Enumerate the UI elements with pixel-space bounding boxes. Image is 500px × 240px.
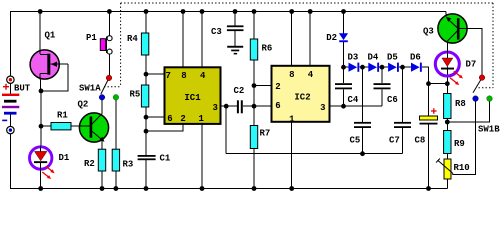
wire: D4/D5 junction down to C6 bbox=[381, 67, 383, 83]
wire: +V top rail bbox=[10, 11, 446, 13]
wire: pin3 node down bbox=[225, 106, 227, 154]
wire: R1 to Q2 base bbox=[71, 125, 79, 127]
wire: P1 to SW1A common bbox=[108, 54, 110, 75]
wire: junction down to pin2 node bbox=[145, 117, 147, 131]
wire: pin2 node down to pin6 node bbox=[253, 86, 255, 107]
junction +V rail / P1 bbox=[107, 9, 112, 14]
transistor Q2 bbox=[79, 113, 108, 149]
diode D5 bbox=[388, 63, 399, 72]
wire: node to IC2 pin 6 bbox=[254, 105, 272, 107]
wire: IC2 pin 1 to bottom rail bbox=[291, 122, 293, 189]
mechanical link dotted line right drop to SW1B bbox=[492, 3, 494, 88]
wire: Q1 gate loop to source junction bbox=[41, 64, 68, 91]
svg-text:4: 4 bbox=[308, 70, 314, 80]
junction D1/bottom rail bbox=[38, 186, 43, 191]
svg-text:C2: C2 bbox=[234, 86, 245, 96]
junction R1/D1 node bbox=[39, 124, 44, 129]
junction IC2 pin1/bottom rail bbox=[289, 186, 294, 191]
junction +V rail / IC1 pin 8 bbox=[181, 9, 186, 14]
wire: junction to R5 bbox=[145, 74, 147, 85]
svg-text:R4: R4 bbox=[127, 34, 138, 44]
junction IC1 pin1/bottom rail bbox=[200, 186, 205, 191]
junction +V rail / D2 bbox=[341, 9, 346, 14]
svg-text:2: 2 bbox=[180, 114, 185, 124]
wire: node down to C1 bbox=[145, 131, 147, 155]
wire: D3/D4 junction down to C5 bbox=[362, 67, 364, 122]
junction R3/bottom rail bbox=[114, 186, 119, 191]
wire: phase line to C5 bbox=[226, 153, 362, 155]
wire: C3 to ground symbol bbox=[234, 31, 236, 46]
mechanical link dotted line top bbox=[121, 2, 493, 4]
wire: phase line to C7 bbox=[363, 153, 403, 155]
wire: ground bottom rail bbox=[10, 188, 448, 190]
wire: C6 bottom lead bbox=[381, 89, 383, 106]
wire: D1 cathode to bottom rail bbox=[40, 171, 42, 189]
svg-text:D5: D5 bbox=[387, 53, 398, 63]
resistor R7 bbox=[250, 126, 257, 149]
capacitor C7 bbox=[394, 122, 411, 128]
svg-text:Q2: Q2 bbox=[78, 100, 89, 110]
wire: node down to C8 bbox=[428, 84, 430, 116]
wire: D4 to D5 bbox=[379, 66, 388, 68]
wire: node to R1 bbox=[41, 125, 51, 127]
battery BUT bbox=[2, 76, 19, 134]
wire: R10 to bottom rail corner bbox=[447, 179, 449, 189]
op-amp/timer IC1 bbox=[165, 67, 221, 124]
wire: SW1A blue contact to Q2 collector bbox=[101, 100, 103, 114]
junction C4/pump line bbox=[341, 104, 346, 109]
wire: R3 to bottom rail bbox=[115, 171, 117, 189]
LED D7 bbox=[435, 52, 463, 86]
svg-text:D7: D7 bbox=[466, 60, 477, 70]
junction D3/D4/C5 bbox=[360, 65, 365, 70]
capacitor C3 bbox=[227, 25, 244, 31]
wire: SW1A green contact to R3 bbox=[115, 100, 117, 149]
junction R4/R5/pin7 bbox=[144, 72, 149, 77]
svg-text:SW1A: SW1A bbox=[79, 84, 101, 94]
wire: battery minus to bottom rail bbox=[10, 134, 12, 189]
svg-text:IC1: IC1 bbox=[184, 93, 201, 103]
wire: SW1B green contact to R8/R9 junction bbox=[447, 101, 489, 122]
svg-text:C7: C7 bbox=[389, 136, 400, 146]
wire: pin3 node to C2 bbox=[226, 105, 237, 107]
wire: node to D7/R8 node bbox=[429, 83, 448, 85]
wire: rail down to P1 bbox=[108, 12, 110, 36]
wire: R7 to bottom rail bbox=[253, 149, 255, 189]
svg-text:Q1: Q1 bbox=[45, 31, 56, 41]
resistor R4 bbox=[141, 33, 148, 55]
wire: R4 to junction pin7 bbox=[145, 55, 147, 74]
wire: D7 anode to Q3 collector bbox=[446, 41, 448, 51]
wire: R8 to junction bbox=[446, 119, 448, 123]
resistor R6 bbox=[250, 39, 257, 60]
wire: node to IC1 pin 2 (bent) bbox=[146, 124, 183, 131]
LED D1 bbox=[30, 146, 55, 179]
wire: R9 to R10 bbox=[446, 154, 448, 160]
wire: D3 to D4 bbox=[359, 66, 368, 68]
svg-text:R3: R3 bbox=[123, 160, 134, 170]
junction C5/phase line bbox=[360, 151, 365, 156]
diode D2 bbox=[339, 33, 348, 42]
resistor R3 bbox=[112, 149, 119, 171]
trimmer R10 bbox=[436, 159, 453, 180]
svg-text:IC2: IC2 bbox=[294, 93, 310, 103]
wire: D5 to D6 bbox=[399, 66, 411, 68]
capacitor C2 bbox=[237, 100, 243, 113]
svg-text:C6: C6 bbox=[387, 95, 398, 105]
svg-text:D1: D1 bbox=[59, 153, 70, 163]
resistor R2 bbox=[98, 149, 105, 171]
wire: junction to IC1 pin 7 bbox=[146, 73, 165, 75]
svg-text:R9: R9 bbox=[454, 139, 465, 149]
resistor R8 bbox=[444, 94, 451, 119]
junction +V rail / Q1 bbox=[38, 9, 43, 14]
switch SW1A bbox=[99, 75, 120, 100]
wire: IC1 pin 4 to rail bbox=[201, 12, 203, 68]
svg-text:D6: D6 bbox=[410, 53, 421, 63]
svg-text:R8: R8 bbox=[455, 99, 466, 109]
svg-text:D3: D3 bbox=[348, 53, 359, 63]
svg-text:C8: C8 bbox=[415, 136, 426, 146]
wire: junction to IC1 pin 6 bbox=[146, 116, 165, 118]
svg-text:3: 3 bbox=[212, 103, 217, 113]
transistor Q3 bbox=[438, 12, 468, 44]
resistor R1 bbox=[51, 123, 71, 130]
junction +V rail / IC1 pin 4 bbox=[200, 9, 205, 14]
pushbutton P1 bbox=[100, 36, 112, 54]
capacitor C1 bbox=[138, 155, 156, 160]
svg-text:C5: C5 bbox=[350, 136, 361, 146]
svg-text:C3: C3 bbox=[211, 27, 222, 37]
resistor R9 bbox=[444, 131, 451, 154]
junction D7/R8 node bbox=[445, 81, 450, 86]
wire: SW1B blue contact to R10 wiper bbox=[453, 101, 476, 174]
wire: IC2 pin 8 to rail bbox=[291, 12, 293, 66]
wire: rail to Q1 drain bbox=[39, 12, 41, 51]
junction IC2 pin2 node bbox=[252, 83, 257, 88]
svg-text:7: 7 bbox=[165, 71, 170, 81]
junction R7/bottom rail bbox=[252, 186, 257, 191]
svg-text:D2: D2 bbox=[326, 33, 337, 43]
svg-text:8: 8 bbox=[181, 71, 186, 81]
wire: rail to C3 bbox=[234, 12, 236, 26]
switch SW1B bbox=[473, 75, 493, 102]
wire: C1 to bottom rail bbox=[145, 160, 147, 188]
wire: node to IC2 pin 2 bbox=[254, 85, 272, 87]
ground bbox=[227, 46, 243, 55]
transistor Q1 bbox=[30, 50, 68, 80]
wire: rail to R6 bbox=[253, 12, 255, 40]
junction pin2/C1 node bbox=[144, 129, 149, 134]
junction +V rail / R6 bbox=[252, 9, 257, 14]
diode D4 bbox=[368, 63, 379, 72]
svg-text:R7: R7 bbox=[260, 129, 271, 139]
junction IC2 pin6/C2/R7 node bbox=[252, 104, 257, 109]
wire: IC1 pin 1 to bottom rail bbox=[201, 124, 203, 189]
wire: D2 to multiplier chain bbox=[343, 42, 345, 67]
diode D6 bbox=[411, 63, 422, 72]
svg-text:R6: R6 bbox=[262, 44, 273, 54]
wire: R5 to junction pin6 bbox=[145, 107, 147, 117]
wire: junction to R9 bbox=[446, 122, 448, 131]
svg-text:BUT: BUT bbox=[14, 84, 31, 94]
capacitor C8 electrolytic bbox=[420, 108, 438, 124]
timer IC2 bbox=[272, 66, 330, 125]
wire: C5 to phase line bbox=[362, 128, 364, 154]
wire: IC1 pin 8 to rail bbox=[182, 12, 184, 68]
svg-text:D4: D4 bbox=[368, 53, 379, 63]
junction D4/D5/C6 bbox=[380, 65, 385, 70]
wire: C7 bottom lead bbox=[402, 128, 404, 154]
svg-text:6: 6 bbox=[275, 101, 280, 111]
wire: chain to D3 bbox=[344, 66, 349, 68]
svg-text:C1: C1 bbox=[160, 154, 171, 164]
svg-text:4: 4 bbox=[200, 71, 206, 81]
wire: battery plus lead to rail bbox=[10, 12, 12, 76]
wire: chain junction down to C4 bbox=[343, 67, 345, 83]
wire: rail to R4 bbox=[145, 12, 147, 34]
junction C8/D7 node bbox=[426, 81, 431, 86]
wire: node down to R7 bbox=[253, 106, 255, 125]
svg-text:R10: R10 bbox=[454, 163, 470, 173]
wire: IC2 pin 3 to pump line bbox=[330, 105, 383, 107]
junction +V rail / R4 bbox=[144, 9, 149, 14]
svg-text:SW1B: SW1B bbox=[478, 125, 500, 135]
svg-text:C4: C4 bbox=[348, 95, 359, 105]
wire: Q3 base to SW1B common bbox=[468, 28, 482, 74]
svg-text:R1: R1 bbox=[57, 111, 68, 121]
junction D5/D6/C7 bbox=[400, 65, 405, 70]
svg-text:6: 6 bbox=[167, 114, 172, 124]
resistor R5 bbox=[141, 85, 148, 107]
junction R2/bottom rail bbox=[100, 186, 105, 191]
wire: IC1 pin 3 out bbox=[221, 105, 227, 107]
svg-text:R5: R5 bbox=[130, 90, 141, 100]
wire: rail to D2 bbox=[343, 12, 345, 34]
svg-text:P1: P1 bbox=[86, 33, 97, 43]
wire: Q1 source down to junction bbox=[40, 79, 42, 91]
wire: C2 to R6/R7 node bbox=[243, 105, 254, 107]
wire: D7 cathode lead bbox=[446, 70, 448, 84]
wire: D6 to C8/D7 node bbox=[422, 67, 429, 84]
wire: R6 to pin2 node bbox=[253, 60, 255, 86]
svg-text:8: 8 bbox=[289, 70, 294, 80]
junction R8/R9/SW1B bbox=[445, 120, 450, 125]
wire: IC2 pin 4 to rail bbox=[309, 12, 311, 66]
capacitor C4 bbox=[335, 83, 352, 89]
junction +V rail / IC2 pin 4 bbox=[308, 9, 313, 14]
svg-text:Q3: Q3 bbox=[423, 27, 434, 37]
capacitor C6 bbox=[374, 83, 391, 89]
junction Q1 source/gate bbox=[39, 89, 44, 94]
capacitor C5 bbox=[354, 122, 371, 128]
junction +V rail / IC2 pin 8 bbox=[289, 9, 294, 14]
svg-text:1: 1 bbox=[198, 114, 204, 124]
diode D3 bbox=[349, 63, 360, 72]
mechanical link dotted line left drop to SW1A bbox=[120, 3, 122, 87]
junction D2/C4/D3 bbox=[341, 65, 346, 70]
junction C8/bottom rail bbox=[426, 186, 431, 191]
junction C1/bottom rail bbox=[144, 186, 149, 191]
svg-text:3: 3 bbox=[320, 103, 325, 113]
wire: junction down to R1/D1 node bbox=[40, 91, 42, 126]
wire: node down to D1 bbox=[40, 126, 42, 146]
junction +V rail / C3 bbox=[233, 9, 238, 14]
wire: R2 to bottom rail bbox=[101, 171, 103, 189]
svg-text:2: 2 bbox=[275, 82, 280, 92]
wire: C4 to pump line bbox=[343, 89, 345, 106]
wire: D5/D6 junction down to C7 bbox=[402, 67, 404, 122]
svg-text:R2: R2 bbox=[84, 159, 95, 169]
wire: C8 to bottom rail bbox=[428, 125, 430, 189]
wire: D7 node to R8 bbox=[446, 84, 448, 94]
junction IC1 pin3 node bbox=[224, 104, 229, 109]
junction R5/pin6 bbox=[144, 115, 149, 120]
